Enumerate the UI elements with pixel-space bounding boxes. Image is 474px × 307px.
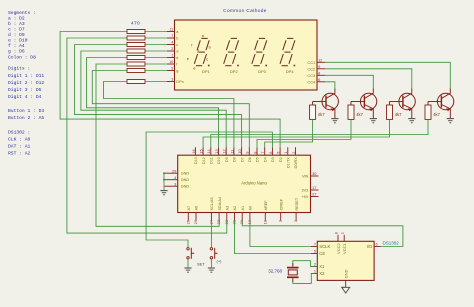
svg-text:D2: D2 (279, 157, 283, 162)
svg-text:DP4: DP4 (286, 69, 295, 74)
svg-text:5: 5 (314, 249, 316, 254)
Arduino bottom pin A3 number 22 (226, 213, 228, 221)
resistor RN1 element g (127, 69, 145, 73)
svg-text:DAT : A1: DAT : A1 (8, 143, 30, 149)
svg-text:16: 16 (191, 149, 196, 153)
push button SW1 SET (187, 248, 189, 250)
svg-text:DP1: DP1 (202, 69, 211, 74)
Arduino top pin D2 number 5 (279, 147, 281, 155)
svg-text:+5V: +5V (301, 195, 308, 199)
svg-text:4: 4 (171, 41, 173, 45)
ground below transistor Q3 (408, 118, 415, 120)
svg-text:22: 22 (224, 220, 229, 224)
ground below transistor Q1 (331, 118, 338, 120)
svg-text:23: 23 (216, 220, 221, 224)
wire A0 to DS1302 SCLK (250, 221, 311, 247)
svg-text:12: 12 (222, 149, 227, 153)
wire resistor a to display pin a (145, 31, 167, 33)
svg-text:Digit 4 : D4: Digit 4 : D4 (8, 94, 42, 100)
ground below SET button (187, 259, 189, 268)
svg-text:4k7: 4k7 (395, 112, 402, 117)
svg-text:SET: SET (197, 261, 205, 266)
wire A1 to DS1302 I/O (242, 221, 403, 247)
svg-text:15: 15 (199, 149, 204, 153)
svg-text:1: 1 (340, 232, 345, 234)
svg-text:D7: D7 (240, 157, 244, 162)
wire A2 to DS1302 CE (235, 221, 311, 254)
ground symbol below DS1302 (earth style) (342, 287, 350, 293)
svg-text:d: d (176, 49, 178, 54)
resistor R4 value 4k7 (425, 105, 431, 119)
wire transistor Q2 base to Arduino pin D5 (257, 119, 351, 147)
svg-text:Button 1 : D3: Button 1 : D3 (8, 108, 44, 114)
resistor R2 value 4k7 (348, 105, 354, 119)
svg-text:A7: A7 (187, 206, 191, 211)
svg-text:D12: D12 (202, 157, 206, 164)
svg-text:25: 25 (193, 220, 198, 224)
svg-text:5: 5 (276, 152, 281, 154)
svg-text:6: 6 (376, 243, 378, 247)
svg-text:3V3: 3V3 (302, 189, 309, 193)
svg-text:5: 5 (171, 67, 173, 71)
svg-text:D9: D9 (225, 157, 229, 162)
svg-text:7: 7 (314, 242, 316, 247)
svg-text:D0/RX: D0/RX (294, 157, 298, 169)
wire segment b to Arduino pin A3 (67, 38, 227, 233)
Arduino bottom pin A1 number 20 (241, 213, 243, 221)
wire resistor d to display pin d (145, 50, 167, 52)
crystal Y1 32,768 (287, 267, 299, 269)
svg-text:SCLK: SCLK (319, 244, 330, 249)
ground below transistor Q2 (370, 118, 377, 120)
svg-text:CLK : A0: CLK : A0 (8, 136, 30, 142)
Arduino top pin D0/RX number 2 (295, 147, 297, 155)
Arduino bottom pin SCL/A5 number 24 (210, 213, 212, 221)
svg-text:D5: D5 (256, 157, 260, 162)
svg-text:21: 21 (232, 220, 237, 224)
svg-text:Segments :: Segments : (8, 10, 36, 16)
svg-text:VIN: VIN (302, 175, 309, 179)
resistor RN1 element a (127, 30, 145, 34)
wire segment c to Arduino pin D7 (75, 45, 242, 148)
svg-text:D10: D10 (217, 157, 221, 164)
display U2 4-digit 7-segment common cathode (175, 20, 318, 90)
Arduino bottom pin A2 number 21 (234, 213, 236, 221)
svg-text:GND: GND (181, 178, 190, 182)
display pin g number 5 (167, 70, 175, 72)
svg-text:D1/TX: D1/TX (287, 157, 291, 168)
display pin CC3 number 8 (317, 74, 325, 76)
svg-text:Digit 1 : D11: Digit 1 : D11 (8, 73, 44, 79)
wire crystal to X1 (293, 261, 318, 267)
Arduino top pin D4 number 7 (264, 147, 266, 155)
RTC chip U3 DS1302 (317, 241, 374, 280)
transistor Q4 NPN (437, 93, 453, 109)
svg-text:IOREF: IOREF (279, 198, 283, 210)
wire segment g to Arduino pin D6 (92, 71, 249, 148)
display pin CC4 number 6 (317, 81, 325, 83)
display pin b number 7 (167, 37, 175, 39)
display pin c number 4 (167, 44, 175, 46)
svg-text:f : A4: f : A4 (8, 43, 25, 49)
svg-text:Arduino Nano: Arduino Nano (241, 181, 267, 186)
wire resistor c to display pin c (145, 44, 167, 46)
svg-text:D3: D3 (271, 157, 275, 162)
Arduino top pin D11 number 14 (210, 147, 212, 155)
Arduino top pin D3 number 6 (271, 147, 273, 155)
svg-text:4k7: 4k7 (356, 112, 363, 117)
wire segment f to Arduino pin SDA/A4 (96, 64, 219, 226)
wire CC1 to transistor Q4 collector (325, 62, 450, 88)
svg-text:DPx: DPx (176, 79, 183, 84)
wire transistor Q3 base to Arduino pin D12 (203, 119, 389, 147)
svg-text:e: e (187, 57, 189, 61)
svg-text:e : D10: e : D10 (8, 38, 28, 44)
svg-text:1: 1 (314, 269, 316, 274)
svg-text:1: 1 (171, 54, 173, 58)
ground below (+) button (210, 259, 212, 268)
wire D3 to SET button (146, 132, 272, 248)
svg-text:2: 2 (314, 262, 316, 267)
wire segment d to Arduino pin D9 (81, 51, 226, 147)
Arduino bottom pin IOREF number 2 (280, 213, 282, 221)
svg-text:4k7: 4k7 (318, 112, 325, 117)
svg-text:b: b (176, 36, 178, 41)
DS1302 pin X1 number 2 (311, 266, 318, 268)
svg-text:470: 470 (131, 21, 140, 27)
svg-text:GND: GND (181, 185, 190, 189)
digit glyph 2 (231, 37, 237, 39)
resistor RN1 element d (127, 49, 145, 53)
ground below transistor Q4 (447, 118, 454, 120)
svg-text:A1: A1 (241, 206, 245, 211)
svg-text:CC3: CC3 (307, 73, 315, 78)
svg-text:SDA/A4: SDA/A4 (218, 197, 222, 211)
Arduino Nano module A1 (178, 155, 311, 212)
DS1302 pin CE number 5 (311, 253, 318, 255)
wire segment a to Arduino pin D2 (60, 32, 280, 148)
svg-text:c : D7: c : D7 (8, 27, 25, 33)
Arduino top pin D8 number 11 (233, 147, 235, 155)
svg-text:SCL/A5: SCL/A5 (210, 197, 214, 210)
svg-text:8: 8 (318, 72, 320, 76)
svg-text:d : D9: d : D9 (8, 32, 25, 38)
svg-text:32,768: 32,768 (268, 268, 282, 273)
Arduino right pins VIN 3V3 +5V (311, 175, 319, 177)
resistor R1 value 4k7 (310, 105, 316, 119)
svg-text:7: 7 (171, 34, 173, 38)
resistor R3 value 4k7 (387, 105, 393, 119)
svg-text:GND: GND (181, 172, 190, 176)
svg-text:GND: GND (344, 269, 349, 278)
svg-text:13: 13 (214, 149, 219, 153)
svg-text:6: 6 (268, 152, 273, 154)
Arduino top pin D9 number 12 (225, 147, 227, 155)
svg-text:c: c (176, 42, 178, 47)
wire GND junction (163, 173, 165, 186)
Arduino top pin D1/TX number 1 (287, 147, 289, 155)
Arduino bottom pin A6 number 25 (195, 213, 197, 221)
svg-text:9: 9 (245, 152, 250, 154)
wire crystal to X2 (293, 274, 318, 284)
svg-text:18: 18 (262, 220, 267, 224)
DS1302 pin SCLK number 7 (311, 246, 318, 248)
DS1302 top pins VCC2 VCC1 (337, 235, 339, 242)
svg-text:CC4: CC4 (307, 79, 316, 84)
resistor RN1 element c (127, 43, 145, 47)
svg-text:D4: D4 (263, 157, 267, 162)
wire CC3 to transistor Q2 collector (325, 75, 373, 88)
svg-text:DP3: DP3 (258, 69, 267, 74)
svg-text:g : D6: g : D6 (8, 49, 25, 55)
svg-text:DS1302: DS1302 (383, 241, 400, 246)
svg-text:3: 3 (293, 220, 298, 222)
Arduino bottom pin SDA/A4 number 23 (218, 213, 220, 221)
wire segment e to Arduino pin D10 (87, 58, 219, 148)
svg-text:Colon : D8: Colon : D8 (8, 54, 36, 60)
svg-text:11: 11 (229, 150, 234, 154)
wire resistor e to display pin e (145, 57, 167, 59)
svg-text:VCC1: VCC1 (342, 243, 347, 254)
svg-text:2: 2 (278, 220, 283, 222)
svg-text:4k7: 4k7 (433, 112, 440, 117)
svg-text:A3: A3 (226, 206, 230, 211)
wire resistor g to display pin g (145, 70, 167, 72)
svg-text:1: 1 (283, 152, 288, 154)
digit glyph 3 (259, 37, 265, 39)
Arduino top pin D7 number 10 (241, 147, 243, 155)
svg-text:19: 19 (247, 220, 252, 224)
svg-text:d: d (193, 66, 195, 70)
display pin e number 1 (167, 57, 175, 59)
Arduino top pin D12 number 15 (202, 147, 204, 155)
svg-text:AREF: AREF (264, 200, 268, 211)
svg-text:Digits :: Digits : (8, 66, 30, 72)
DS1302 bottom pin GND number 4 (345, 280, 347, 287)
Arduino bottom pin A7 number 26 (187, 213, 189, 221)
svg-text:g: g (197, 48, 199, 52)
ground symbol below Arduino GND (163, 186, 165, 190)
wire segment DPx to Arduino pin D8 (104, 82, 234, 148)
resistor RN1 element e (127, 56, 145, 60)
svg-text:CE: CE (319, 251, 325, 256)
svg-text:b: b (209, 45, 211, 49)
Arduino left GND pins 29 4 3 (164, 172, 178, 174)
svg-text:A2: A2 (233, 206, 237, 211)
svg-text:DS1302 :: DS1302 : (8, 129, 30, 135)
svg-text:X1: X1 (319, 264, 325, 269)
display pin CC1 number 12 (317, 61, 325, 63)
svg-text:DP2: DP2 (230, 69, 239, 74)
Arduino bottom pin AREF number 18 (264, 213, 266, 221)
digit glyph 1 (201, 37, 207, 39)
svg-text:g: g (176, 68, 178, 73)
wire CC2 to transistor Q3 collector (325, 69, 412, 89)
resistor RN1 element b (127, 36, 145, 40)
wire resistor f to display pin f (145, 63, 167, 65)
svg-text:VCC2: VCC2 (336, 243, 341, 254)
DS1302 pin X2 number 1 (311, 273, 318, 275)
svg-text:D13: D13 (194, 157, 198, 164)
svg-text:29: 29 (172, 168, 176, 173)
svg-text:RST : A2: RST : A2 (8, 150, 30, 156)
svg-text:27: 27 (312, 192, 316, 197)
svg-text:Digit 2 : D12: Digit 2 : D12 (8, 80, 44, 86)
Arduino bottom pin RESET number 3 (295, 213, 297, 221)
svg-text:8: 8 (333, 232, 338, 234)
wire resistor b to display pin b (145, 37, 167, 39)
svg-text:e: e (176, 55, 178, 60)
svg-text:(+): (+) (217, 259, 223, 264)
wire transistor Q1 base to Arduino pin D4 (265, 119, 313, 147)
svg-text:26: 26 (185, 220, 190, 224)
svg-text:Button 2 : A5: Button 2 : A5 (8, 115, 44, 121)
svg-text:Common Cathode: Common Cathode (223, 8, 267, 13)
svg-text:b : A3: b : A3 (8, 21, 25, 27)
wire SCL/A5 to (+) button (210, 221, 212, 248)
svg-text:a : D2: a : D2 (8, 16, 25, 22)
svg-text:11: 11 (170, 28, 174, 32)
svg-text:I/O: I/O (367, 244, 373, 249)
svg-text:6: 6 (318, 78, 320, 82)
display pin d number 2 (167, 50, 175, 52)
svg-text:CC1: CC1 (307, 60, 315, 65)
wire resistor DPx to display pin DPx (145, 81, 167, 83)
wire CC4 to transistor Q1 collector (325, 82, 335, 89)
transistor Q2 NPN (360, 93, 376, 109)
Arduino top pin D10 number 13 (218, 147, 220, 155)
svg-text:c: c (206, 58, 208, 62)
svg-text:9: 9 (318, 65, 320, 69)
Arduino bottom pin A0 number 19 (249, 213, 251, 221)
svg-text:D11: D11 (210, 157, 214, 164)
svg-text:17: 17 (312, 185, 316, 190)
svg-text:12: 12 (318, 59, 322, 63)
svg-text:10: 10 (169, 60, 173, 64)
Arduino top pin D5 number 8 (256, 147, 258, 155)
svg-text:3: 3 (171, 78, 173, 82)
resistor RN1 element f (127, 62, 145, 66)
svg-text:8: 8 (252, 152, 257, 154)
svg-text:RESET: RESET (295, 197, 299, 210)
svg-text:3: 3 (174, 181, 176, 186)
transistor Q3 NPN (399, 93, 415, 109)
svg-text:CC2: CC2 (307, 66, 315, 71)
svg-text:2: 2 (291, 152, 296, 154)
svg-text:A6: A6 (195, 206, 199, 211)
Arduino top pin D13 number 16 (194, 147, 196, 155)
Arduino top pin D6 number 9 (248, 147, 250, 155)
svg-text:2: 2 (171, 47, 173, 51)
wire transistor Q4 base to Arduino pin D11 (211, 119, 428, 147)
display pin f number 10 (167, 63, 175, 65)
svg-text:7: 7 (260, 152, 265, 154)
display pin CC2 number 9 (317, 68, 325, 70)
transistor Q1 NPN (322, 93, 338, 109)
svg-text:X2: X2 (319, 271, 325, 276)
svg-text:D8: D8 (233, 157, 237, 162)
digit glyph 4 (287, 37, 293, 39)
svg-text:A0: A0 (249, 206, 253, 211)
display pin a number 11 (167, 31, 175, 33)
DS1302 pin I/O number 6 (374, 246, 381, 248)
resistor RN1 element DPx (127, 80, 145, 84)
svg-text:D6: D6 (248, 157, 252, 162)
display pin DPx number 3 (167, 81, 175, 83)
svg-text:Digit 3 : D5: Digit 3 : D5 (8, 87, 42, 93)
push button SW2 (+) (210, 248, 212, 250)
